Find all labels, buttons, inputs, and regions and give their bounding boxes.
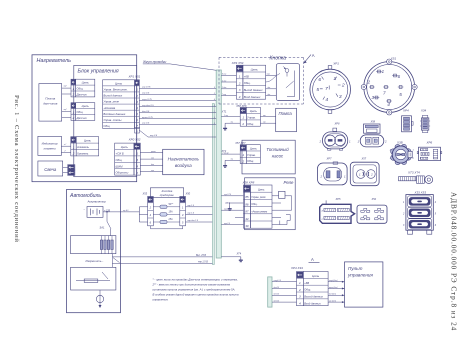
svg-text:Цепь: Цепь <box>250 146 258 150</box>
svg-text:7: 7 <box>136 124 138 128</box>
svg-text:Управ.: Управ. <box>247 153 256 157</box>
svg-text:Входные данные: Входные данные <box>103 112 125 116</box>
svg-text:ХТ4: ХТ4 <box>236 252 242 255</box>
svg-text:Цепь: Цепь <box>121 145 129 149</box>
svg-text:4: 4 <box>325 97 328 103</box>
svg-text:2 чер: 2 чер <box>221 80 226 82</box>
svg-text:6: 6 <box>397 74 400 79</box>
svg-text:чер: чер <box>231 159 234 161</box>
svg-text:бел (бел): бел (бел) <box>329 294 336 296</box>
svg-text:+Акум.клемм: +Акум.клемм <box>251 209 267 213</box>
svg-text:В скобках указан другой вариан: В скобках указан другой вариант цвета пр… <box>153 292 239 296</box>
svg-text:кор 1.5: кор 1.5 <box>188 205 195 207</box>
svg-text:бел 0.5: бел 0.5 <box>274 287 280 289</box>
svg-text:6: 6 <box>318 77 321 83</box>
svg-text:Индикатор: Индикатор <box>42 142 58 146</box>
svg-text:2: 2 <box>241 159 244 163</box>
svg-text:нс*: нс* <box>64 144 67 146</box>
svg-text:7: 7 <box>383 91 386 96</box>
svg-text:Разрешить -: Разрешить - <box>86 259 104 263</box>
svg-text:Цепь: Цепь <box>312 274 320 278</box>
svg-text:Общ.: Общ. <box>251 202 258 206</box>
svg-text:SA1: SA1 <box>100 225 105 229</box>
svg-text:2: 2 <box>384 140 387 144</box>
svg-text:2** - вместо кнопки при допо: 2** - вместо кнопки при дополнительном з… <box>152 282 231 286</box>
svg-text:2: 2 <box>241 122 244 126</box>
svg-text:1: 1 <box>239 75 241 79</box>
svg-text:ХР7: ХР7 <box>326 157 332 161</box>
svg-text:1: 1 <box>299 281 301 285</box>
svg-text:3: 3 <box>239 88 241 92</box>
svg-text:Выход данных: Выход данных <box>244 88 263 92</box>
svg-text:ХТ1: ХТ1 <box>221 110 227 113</box>
svg-text:2: 2 <box>72 152 75 156</box>
svg-text:сер (жел): сер (жел) <box>329 300 336 302</box>
svg-text:Аккумулятор: Аккумулятор <box>87 199 107 203</box>
svg-text:Общ.: Общ. <box>77 110 84 114</box>
svg-text:1: 1 <box>381 69 384 74</box>
svg-text:голуб (бел): голуб (бел) <box>329 280 338 282</box>
svg-text:+Клемма: +Клемма <box>103 106 115 110</box>
svg-text:Выход данных: Выход данных <box>304 294 323 298</box>
svg-text:сер 0.5: сер 0.5 <box>142 123 150 125</box>
svg-text:Х58: Х58 <box>370 120 376 124</box>
svg-text:Управ.: Управ. <box>247 116 256 120</box>
svg-text:Управ. реле: Управ. реле <box>251 195 266 199</box>
svg-text:1 чер: 1 чер <box>224 115 228 117</box>
svg-text:Цепь: Цепь <box>251 68 259 72</box>
svg-text:пламени: пламени <box>44 147 56 151</box>
svg-text:Х34: Х34 <box>420 108 427 112</box>
svg-text:красн: красн <box>151 151 156 153</box>
svg-text:Автомобиль: Автомобиль <box>69 193 101 199</box>
svg-text:ХР5: ХР5 <box>335 197 341 201</box>
svg-text:Управ. реле: Управ. реле <box>103 100 119 104</box>
svg-text:управления: управления <box>347 273 373 278</box>
svg-text:воздуха: воздуха <box>175 163 192 168</box>
svg-text:ХТ3: ХТ3 <box>224 202 230 205</box>
svg-text:чер 1.5 В: чер 1.5 В <box>198 262 208 264</box>
svg-text:3: 3 <box>299 295 301 299</box>
svg-text:ХР6: ХР6 <box>426 140 433 144</box>
svg-text:управления.: управления. <box>152 298 169 302</box>
svg-text:2: 2 <box>319 139 322 143</box>
svg-text:2: 2 <box>298 288 301 292</box>
svg-text:кор 1.0: кор 1.0 <box>188 213 195 215</box>
svg-text:4: 4 <box>299 302 301 306</box>
svg-text:Хромель: Хромель <box>76 152 89 156</box>
svg-text:Рис. 1 – Схема электрических с: Рис. 1 – Схема электрических соединений <box>13 95 20 243</box>
svg-text:1: 1 <box>242 116 244 120</box>
svg-text:Блок управления: Блок управления <box>78 69 119 75</box>
svg-text:ХР0 Х52: ХР0 Х52 <box>128 138 141 142</box>
svg-text:3: 3 <box>371 95 374 100</box>
svg-text:1: 1 <box>136 88 138 92</box>
svg-text:2: 2 <box>71 116 74 120</box>
svg-text:чер: чер <box>263 121 266 123</box>
svg-text:Плата: Плата <box>45 97 55 101</box>
svg-text:Вход данных: Вход данных <box>304 301 321 305</box>
svg-text:6: 6 <box>214 105 215 107</box>
svg-text:черн: черн <box>267 73 271 75</box>
svg-text:А: А <box>312 53 315 58</box>
svg-text:5А**: 5А** <box>169 203 174 206</box>
svg-text:3: 3 <box>136 100 138 104</box>
svg-text:2: 2 <box>71 93 74 97</box>
svg-text:5: 5 <box>214 117 215 119</box>
svg-text:корич (бел): корич (бел) <box>329 287 338 289</box>
svg-text:Помпа: Помпа <box>279 111 293 116</box>
svg-text:А: А <box>311 257 314 262</box>
svg-text:2: 2 <box>320 174 323 178</box>
svg-text:чер: чер <box>151 158 154 160</box>
svg-text:30: 30 <box>245 224 249 228</box>
svg-text:2: 2 <box>135 94 138 98</box>
svg-text:кор 1.5: кор 1.5 <box>224 208 230 210</box>
svg-text:9: 9 <box>214 87 215 89</box>
svg-text:Вкл. 15 В: Вкл. 15 В <box>196 255 206 257</box>
svg-text:1: 1 <box>136 152 138 156</box>
svg-text:Датчик: Датчик <box>76 93 88 97</box>
svg-text:2: 2 <box>135 171 138 175</box>
svg-text:1 бел: 1 бел <box>222 87 226 89</box>
svg-text:1: 1 <box>333 76 336 82</box>
svg-text:5: 5 <box>399 92 402 97</box>
svg-text:Вход данных: Вход данных <box>244 95 261 99</box>
svg-text:Обороты: Обороты <box>116 171 129 175</box>
svg-text:5: 5 <box>136 112 138 116</box>
svg-text:25А: 25А <box>168 218 174 221</box>
svg-text:бел 0.5: бел 0.5 <box>142 111 150 113</box>
svg-text:бел 0.5: бел 0.5 <box>274 294 280 296</box>
svg-text:4: 4 <box>136 165 138 169</box>
svg-text:Управ. Вентилят.: Управ. Вентилят. <box>103 88 128 92</box>
svg-text:2: 2 <box>370 172 373 176</box>
svg-text:86: 86 <box>245 202 249 206</box>
svg-text:+6В: +6В <box>304 281 309 285</box>
svg-text:предохран.: предохран. <box>160 193 175 197</box>
svg-text:87: 87 <box>245 210 249 214</box>
svg-text:датчиков: датчиков <box>43 101 58 105</box>
svg-text:Нагреватель: Нагреватель <box>37 58 72 64</box>
svg-text:Датчик: Датчик <box>76 116 88 120</box>
svg-text:7 кор: 7 кор <box>222 94 226 96</box>
svg-text:+6В: +6В <box>244 74 249 78</box>
svg-text:чер*: чер* <box>64 109 68 111</box>
svg-text:бел: бел <box>151 164 154 166</box>
svg-text:1: 1 <box>73 145 75 149</box>
svg-text:85: 85 <box>245 195 249 199</box>
svg-text:Общ.: Общ. <box>244 81 251 85</box>
svg-text:7: 7 <box>325 86 328 92</box>
svg-text:1: 1 <box>214 111 215 113</box>
svg-text:3: 3 <box>136 158 138 162</box>
svg-text:1: 1 <box>350 219 351 221</box>
svg-text:4: 4 <box>387 102 390 107</box>
svg-text:чер 0.5: чер 0.5 <box>142 93 150 95</box>
svg-text:3: 3 <box>339 94 342 100</box>
svg-text:бел: бел <box>268 87 271 89</box>
svg-text:Х53: Х53 <box>142 191 148 195</box>
svg-text:4: 4 <box>136 106 138 110</box>
svg-text:чер: чер <box>151 170 154 172</box>
svg-text:Х3В: Х3В <box>396 140 403 144</box>
svg-text:* - цвет жилы на проводах Дат: * - цвет жилы на проводах Датчика темпер… <box>153 277 238 281</box>
svg-text:4: 4 <box>239 95 241 99</box>
svg-text:бел: бел <box>268 94 271 96</box>
svg-text:Цепь: Цепь <box>84 139 92 143</box>
svg-text:+СИ Б: +СИ Б <box>116 152 124 156</box>
svg-text:ХР4 Х54: ХР4 Х54 <box>231 61 244 65</box>
svg-text:Х57: Х57 <box>361 157 367 161</box>
svg-text:ХР4 Х34: ХР4 Х34 <box>290 266 303 270</box>
svg-text:черн 0.75: черн 0.75 <box>142 99 152 101</box>
svg-text:чер*: чер* <box>64 86 68 88</box>
svg-text:Общ.: Общ. <box>116 158 123 162</box>
svg-text:1: 1 <box>72 87 74 91</box>
svg-text:Х50: Х50 <box>185 191 191 195</box>
svg-text:Топливный: Топливный <box>266 147 289 152</box>
svg-text:ХР1 Х51: ХР1 Х51 <box>128 75 141 79</box>
svg-text:Цепь: Цепь <box>115 81 123 85</box>
svg-text:Общ.: Общ. <box>247 159 254 163</box>
svg-text:8: 8 <box>214 123 215 125</box>
svg-text:Пульт: Пульт <box>348 266 363 271</box>
svg-text:вкл: вкл <box>263 115 266 117</box>
svg-text:44: 44 <box>245 217 249 221</box>
svg-text:ХТ3 ХТ4: ХТ3 ХТ4 <box>407 170 420 174</box>
svg-text:кор 2.5: кор 2.5 <box>150 135 158 137</box>
svg-text:Х38 ХР8: Х38 ХР8 <box>242 181 255 185</box>
svg-text:ХР1: ХР1 <box>332 62 339 66</box>
svg-text:Общ.: Общ. <box>304 288 311 292</box>
svg-text:15А: 15А <box>169 210 174 213</box>
svg-text:Общ.: Общ. <box>103 124 110 128</box>
svg-text:ШИМ: ШИМ <box>116 164 124 168</box>
svg-text:1: 1 <box>72 110 74 114</box>
svg-text:Общ.: Общ. <box>247 122 254 126</box>
svg-text:Управ. помпы: Управ. помпы <box>103 118 121 122</box>
svg-text:ХР8: ХР8 <box>334 121 340 125</box>
svg-text:2: 2 <box>213 93 215 95</box>
svg-text:АДВР.048.00.00.000 РЭ Стр.8 из: АДВР.048.00.00.000 РЭ Стр.8 из 24 <box>450 192 458 331</box>
svg-text:ХТ2: ХТ2 <box>221 150 227 153</box>
svg-text:установка пульта управления (: установка пульта управления (см. А ) с п… <box>152 287 236 291</box>
svg-text:2: 2 <box>366 79 370 84</box>
svg-text:Цепь: Цепь <box>250 109 258 113</box>
svg-text:Реле: Реле <box>284 180 294 185</box>
svg-text:Х52: Х52 <box>371 197 377 201</box>
svg-text:кор-бел 1.0: кор-бел 1.0 <box>188 220 199 222</box>
svg-text:чер: чер <box>231 121 234 123</box>
svg-text:2: 2 <box>341 83 345 89</box>
svg-text:насос: насос <box>272 154 284 159</box>
svg-text:5: 5 <box>316 87 319 93</box>
svg-text:сер 0.75: сер 0.75 <box>142 87 151 89</box>
svg-text:2: 2 <box>238 81 241 85</box>
svg-text:6: 6 <box>136 118 138 122</box>
svg-text:ХР4: ХР4 <box>402 108 409 112</box>
svg-text:Свеча: Свеча <box>44 167 57 172</box>
svg-text:Жгут проводки: Жгут проводки <box>142 60 167 64</box>
svg-text:Цепь: Цепь <box>82 81 90 85</box>
svg-text:чер-бел 0.5: чер-бел 0.5 <box>142 105 154 107</box>
svg-text:кор 2.5: кор 2.5 <box>224 223 230 225</box>
svg-text:чер 0.75: чер 0.75 <box>224 194 231 196</box>
svg-text:9 сер: 9 сер <box>222 74 226 76</box>
svg-text:Выход данных: Выход данных <box>103 94 122 98</box>
svg-text:красн 0.75: красн 0.75 <box>142 117 153 119</box>
svg-text:1: 1 <box>242 153 244 157</box>
svg-text:голуб 0.5: голуб 0.5 <box>274 280 281 282</box>
svg-text:Цепь: Цепь <box>258 188 265 192</box>
svg-text:Алюмель: Алюмель <box>76 145 90 149</box>
svg-text:бел 0.5: бел 0.5 <box>274 300 280 302</box>
svg-text:Х33 Х53: Х33 Х53 <box>414 190 427 194</box>
svg-text:Цепь: Цепь <box>82 104 90 108</box>
svg-text:Кнопка: Кнопка <box>270 56 287 62</box>
svg-text:Нагнетатель: Нагнетатель <box>168 157 200 162</box>
svg-text:Общ.: Общ. <box>77 87 84 91</box>
